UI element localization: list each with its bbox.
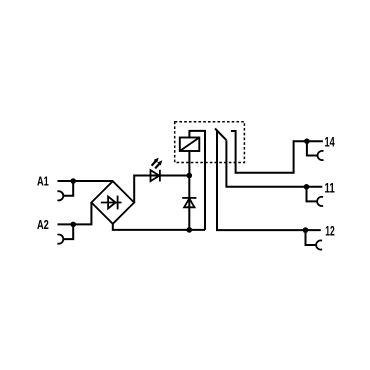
wire coil bottom [188,151,190,176]
svg-text:12: 12 [325,223,335,238]
terminal A1 clamp stub [63,181,74,196]
wire A2 to bridge left vertex [58,203,92,225]
LED cathode bar [159,170,161,182]
bridge rectifier body [91,181,134,224]
bridge rectifier internal diode wire [101,202,122,204]
svg-text:A2: A2 [37,218,49,232]
bridge rectifier internal diode cathode bar [117,196,119,210]
contact NO fixed wire to terminal 14 [231,131,323,173]
contact movable blade [215,129,226,141]
junction dot node A1 [70,178,76,184]
freewheel diode triangle [184,198,194,207]
terminal 14 socket hook [318,151,324,160]
contact common wire to terminal 11 [226,140,322,187]
relay coil body [180,138,200,152]
terminal 11 socket hook [317,197,323,206]
junction dot terminal 14 [304,138,310,144]
svg-text:11: 11 [325,181,336,196]
terminal 12 socket hook [316,240,322,249]
freewheel diode cathode bar [182,197,196,199]
junction dot DC- rail [187,227,193,233]
junction dot terminal 12 [303,227,309,233]
svg-text:A1: A1 [37,174,49,188]
relay coil diagonal [180,138,200,152]
LED triangle [151,170,160,181]
relay K1 boundary dashed box [175,122,245,163]
terminal A1 socket hook [57,191,63,200]
junction dot terminal 11 [304,184,310,190]
wire coil bottom node to DC- rail [188,176,190,230]
wire A1 to bridge top vertex [58,180,113,182]
wire bridge DC+ to LED anode [134,176,189,203]
LED arrow 2 [155,164,159,169]
contact NC wire to terminal 12 [217,131,321,230]
svg-text:14: 14 [325,134,336,149]
terminal A2 clamp stub [63,224,74,239]
junction dot node A2 [70,222,76,228]
terminal 12 clamp stub [306,230,317,245]
terminal 11 clamp stub [307,187,318,202]
wire DC- rail [113,224,205,230]
junction dot coil bottom node [187,173,193,179]
wire coil top to DC- rail [189,131,205,230]
terminal 14 clamp stub [307,141,318,155]
terminal A2 socket hook [57,234,63,243]
LED arrow 1 [152,161,156,166]
bridge rectifier internal diode triangle [108,197,116,209]
